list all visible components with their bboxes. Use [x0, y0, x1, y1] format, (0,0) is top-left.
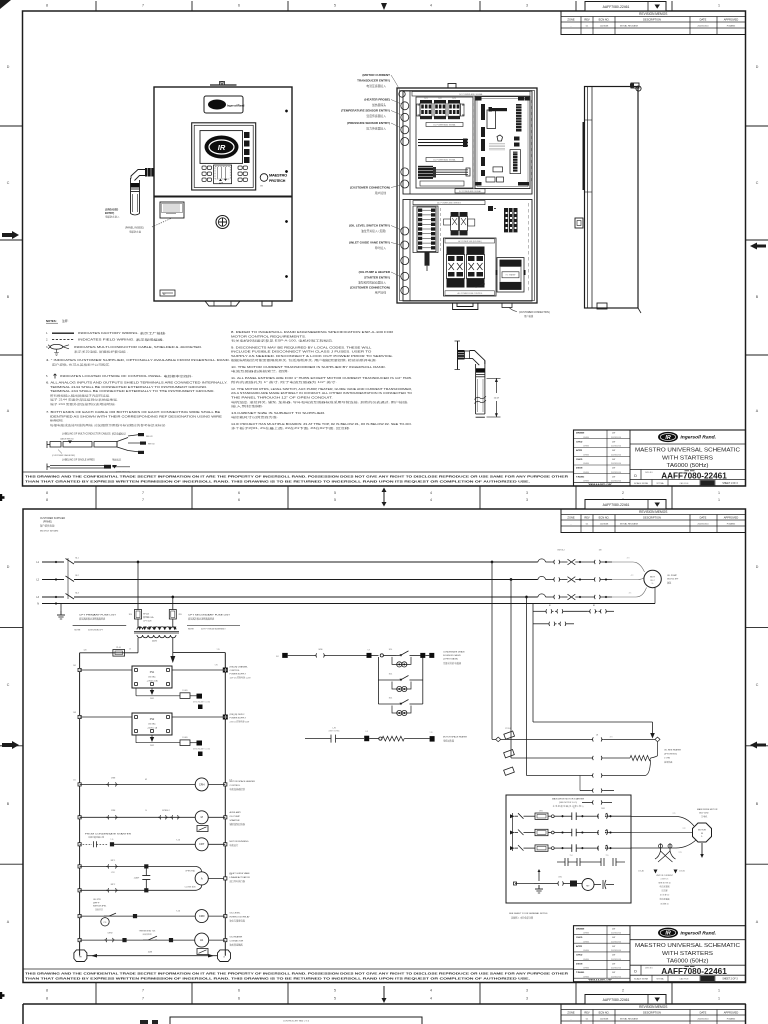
- svg-text:SHEET 2 OF 3: SHEET 2 OF 3: [722, 979, 738, 981]
- svg-text:SCALE NONE: SCALE NONE: [634, 482, 649, 485]
- svg-text:CONDENSATE DRAIN: CONDENSATE DRAIN: [443, 651, 465, 654]
- svg-text:1 OHM: 1 OHM: [664, 758, 670, 760]
- svg-text:6: 6: [238, 997, 240, 1001]
- svg-text:IR: IR: [665, 931, 670, 937]
- svg-text:CHKD: CHKD: [576, 955, 583, 957]
- svg-text:(OIL LEVEL SWITCH ENTRY): (OIL LEVEL SWITCH ENTRY): [349, 224, 390, 228]
- svg-text:THAN THAT GRANTED BY EXPRESS W: THAN THAT GRANTED BY EXPRESS WRITTEN PER…: [25, 480, 530, 484]
- svg-text:DSGN: DSGN: [576, 963, 583, 965]
- svg-text:AC POWER SUB (DIN RAIL): AC POWER SUB (DIN RAIL): [458, 240, 482, 243]
- svg-text:D: D: [756, 565, 759, 569]
- svg-text:2: 2: [622, 491, 624, 495]
- svg-text:INITIAL RELEASE: INITIAL RELEASE: [620, 522, 639, 525]
- svg-text:C8: C8: [596, 735, 598, 737]
- svg-text:1M1: 1M1: [601, 808, 605, 810]
- svg-text:DESCRIPTION: DESCRIPTION: [643, 516, 661, 520]
- svg-text:9. DISCONNECTS MAY BE REQUIRE: 9. DISCONNECTS MAY BE REQUIRED BY LOCAL …: [231, 345, 372, 349]
- svg-text:(2 PER STAGE): (2 PER STAGE): [443, 658, 458, 661]
- svg-text:INDICATES LOCATED OUTSIDE OF C: INDICATES LOCATED OUTSIDE OF CONTROL PAN…: [60, 374, 193, 378]
- svg-text:(CUSTOMER CONNECTION): (CUSTOMER CONNECTION): [350, 286, 390, 290]
- svg-text:CHNG: CHNG: [583, 446, 589, 448]
- svg-text:电控箱尺寸以供货商为准.: 电控箱尺寸以供货商为准.: [231, 415, 279, 419]
- svg-text:电流互感器由英格索兰, 提供.: 电流互感器由英格索兰, 提供.: [231, 369, 289, 373]
- svg-text:(REDUNDANT UL CE): (REDUNDANT UL CE): [193, 748, 211, 751]
- svg-text:10. THE MOTOR CURRENT TRANSFOR: 10. THE MOTOR CURRENT TRANSFORMER IS SUP…: [231, 365, 386, 369]
- svg-text:CONTROLLER 'NN4' 2 5 0: CONTROLLER 'NN4' 2 5 0: [283, 1021, 310, 1023]
- svg-text:INITIAL RELEASE: INITIAL RELEASE: [620, 1017, 639, 1020]
- svg-text:REV: REV: [584, 516, 590, 520]
- svg-text:DC POWER AND SIGNAL: DC POWER AND SIGNAL: [433, 159, 455, 162]
- svg-text:(PRESSURE SENSOR ENTRY): (PRESSURE SENSOR ENTRY): [347, 121, 390, 125]
- svg-text:2023/10/10: 2023/10/10: [698, 25, 710, 27]
- svg-text:4: 4: [430, 997, 432, 1001]
- svg-text:用户提供, 也可从英格索兰公司购买.: 用户提供, 也可从英格索兰公司购买.: [52, 363, 111, 367]
- svg-text:24: 24: [145, 810, 147, 812]
- svg-text:AC POWER AND WIRING: AC POWER AND WIRING: [437, 202, 461, 205]
- svg-text:1: 1: [718, 4, 720, 8]
- svg-text:C: C: [756, 181, 759, 185]
- svg-text:(RS) (N) 24VDC: (RS) (N) 24VDC: [230, 714, 246, 716]
- svg-text:101: 101: [73, 665, 76, 667]
- svg-text:T1: T1: [573, 808, 575, 810]
- svg-text:WT NA: WT NA: [656, 482, 664, 485]
- svg-text:所有模拟输入输出屏蔽端子内部已连接.: 所有模拟输入输出屏蔽端子内部已连接.: [50, 393, 111, 397]
- svg-text:有关电机控制要求参见 ESP-A-100, 电机控制工程规范: 有关电机控制要求参见 ESP-A-100, 电机控制工程规范.: [231, 339, 334, 343]
- svg-text:CHNG: CHNG: [583, 941, 589, 943]
- svg-text:T-W: T-W: [430, 732, 433, 734]
- svg-text:TERMINAL 244 SHALL BE CONNECTE: TERMINAL 244 SHALL BE CONNECTED EXTERNAL…: [50, 389, 215, 393]
- svg-text:C: C: [7, 683, 10, 687]
- svg-text:5: 5: [334, 498, 336, 502]
- svg-text:加热器探头: 加热器探头: [372, 103, 386, 107]
- svg-text:DESCRIPTION: DESCRIPTION: [643, 18, 661, 22]
- svg-text:THIS DRAWING AND THE CONFIDENT: THIS DRAWING AND THE CONFIDENTIAL TRADE …: [25, 971, 568, 975]
- svg-text:MAIN DRIVE MOTOR STARTER: MAIN DRIVE MOTOR STARTER: [552, 798, 585, 801]
- svg-text:2023/10/10: 2023/10/10: [611, 968, 622, 970]
- svg-text:DATE: DATE: [700, 516, 707, 520]
- svg-text:24V2: 24V2: [150, 745, 154, 747]
- svg-text:AUXILIARY: AUXILIARY: [230, 811, 242, 814]
- svg-text:CONTACTOR: CONTACTOR: [230, 940, 244, 943]
- svg-text:120: 120: [84, 650, 87, 652]
- svg-text:INTERLOCK RELAY: INTERLOCK RELAY: [230, 916, 251, 919]
- svg-text:CPT 50/8: CPT 50/8: [143, 621, 152, 623]
- svg-text:MAIN DRIVE MOTOR: MAIN DRIVE MOTOR: [697, 808, 718, 811]
- svg-text:(TEMPERATURE SENSOR ENTRY): (TEMPERATURE SENSOR ENTRY): [341, 109, 390, 113]
- svg-text:WITH STARTERS: WITH STARTERS: [662, 951, 713, 957]
- svg-text:MOTOR SPACE HEATER: MOTOR SPACE HEATER: [443, 736, 468, 739]
- svg-text:3: 3: [526, 997, 528, 1001]
- svg-text:OIL RES HEATER: OIL RES HEATER: [664, 749, 681, 752]
- svg-text:CAD FILE: CAD FILE: [679, 482, 689, 485]
- svg-text:4-BN: 4-BN: [148, 952, 153, 954]
- svg-text:8: 8: [46, 498, 48, 502]
- svg-text:2.: 2.: [46, 338, 48, 342]
- svg-text:CAD FILE: CAD FILE: [679, 978, 689, 981]
- svg-text:1K1: 1K1: [424, 98, 427, 100]
- svg-text:AAFF7080-22461: AAFF7080-22461: [603, 503, 630, 507]
- svg-text:H1: H1: [200, 938, 204, 942]
- svg-text:D: D: [756, 65, 759, 69]
- svg-text:INITIAL RELEASE: INITIAL RELEASE: [620, 24, 639, 27]
- svg-text:2023/10/10: 2023/10/10: [698, 1018, 710, 1020]
- svg-text:1: 1: [718, 498, 720, 502]
- svg-text:NOTES:: NOTES:: [46, 319, 57, 323]
- svg-text:380V/50 3HP: 380V/50 3HP: [667, 579, 679, 581]
- svg-text:7: 7: [142, 4, 144, 8]
- svg-text:INLET GUIDE VANE: INLET GUIDE VANE: [230, 872, 251, 875]
- svg-text:CMU: CMU: [558, 877, 563, 879]
- svg-text:24V1: 24V1: [150, 698, 154, 700]
- svg-text:T-16: T-16: [176, 911, 180, 913]
- svg-text:4T1: 4T1: [629, 593, 632, 595]
- svg-text:温度传感器接入: 温度传感器接入: [366, 114, 386, 118]
- svg-text:▲▼: ▲▼: [219, 181, 223, 184]
- svg-text:DC POWER AND SIGNAL: DC POWER AND SIGNAL: [459, 190, 481, 193]
- svg-text:ALL POWER FUSE CONTROL: ALL POWER FUSE CONTROL: [458, 292, 483, 295]
- svg-text:REVISION MEMOS: REVISION MEMOS: [639, 1005, 667, 1009]
- svg-text:OIL C: OIL C: [650, 580, 656, 582]
- svg-text:OIL PUMP: OIL PUMP: [230, 816, 241, 818]
- svg-text:CRD: CRD: [199, 914, 205, 918]
- svg-text:DESCRIPTION: DESCRIPTION: [643, 1011, 661, 1015]
- svg-text:DSGN: DSGN: [576, 468, 583, 470]
- svg-text:T.RANG: T.RANG: [576, 971, 584, 974]
- svg-text:50/YYY RELAY ASSEMBLY: 50/YYY RELAY ASSEMBLY: [201, 627, 226, 630]
- svg-text:+24VDC 10A: +24VDC 10A: [146, 679, 158, 682]
- svg-text:L-W: L-W: [332, 728, 336, 730]
- svg-text:(WIRE REF-XX): (WIRE REF-XX): [116, 472, 130, 474]
- svg-text:APPR: APPR: [576, 945, 582, 948]
- svg-text:240V: 240V: [152, 640, 158, 642]
- svg-text:8: 8: [46, 491, 48, 495]
- svg-text:2023/10/10: 2023/10/10: [698, 523, 710, 525]
- svg-text:多个板子时#1, #1在最上面, #2在#1下面, #3在#: 多个板子时#1, #1在最上面, #2在#1下面, #3在#2下面, 见注释.: [231, 426, 351, 430]
- svg-text:(RS) (N) CHANNEL: (RS) (N) CHANNEL: [230, 666, 249, 669]
- svg-text:ZONE: ZONE: [567, 1011, 574, 1015]
- svg-text:油泵和风机起动器接入: 油泵和风机起动器接入: [358, 281, 386, 285]
- svg-text:DWG NO.: DWG NO.: [645, 472, 654, 474]
- svg-text:每根电缆或连接导线的两端, 应如图所示用线号标记相应的参考标: 每根电缆或连接导线的两端, 应如图所示用线号标记相应的参考标识来标记.: [50, 423, 166, 427]
- svg-text:1M: 1M: [599, 550, 602, 552]
- svg-text:FROM CONDENSATE STARTER: FROM CONDENSATE STARTER: [85, 833, 132, 836]
- svg-text:DWG NO.: DWG NO.: [645, 968, 654, 970]
- svg-text:MOTOR SPACE HEATER: MOTOR SPACE HEATER: [230, 780, 256, 783]
- svg-text:(SEE NOTES 3 & 5): (SEE NOTES 3 & 5): [559, 802, 577, 804]
- svg-text:T-16: T-16: [176, 840, 180, 842]
- svg-text:REF-XX: REF-XX: [148, 444, 155, 446]
- svg-text:ECN NO.: ECN NO.: [599, 1011, 610, 1015]
- svg-text:14.IF PROJECT HAS MULTIPLE BOA: 14.IF PROJECT HAS MULTIPLE BOARDS: #1 AT…: [231, 422, 412, 426]
- svg-text:根据当地规范可能需要隔离开关, 包括熔断开关, 用户根据需要: 根据当地规范可能需要隔离开关, 包括熔断开关, 用户根据需要提供, 检修前断开电…: [231, 358, 377, 362]
- svg-text:CONTROL: CONTROL: [230, 670, 241, 672]
- svg-text:(CUSTOMER CONNECTION): (CUSTOMER CONNECTION): [350, 186, 390, 190]
- svg-text:APPROVED: APPROVED: [724, 1011, 739, 1015]
- svg-text:POWER SUPPLY: POWER SUPPLY: [230, 674, 247, 676]
- svg-text:IR: IR: [665, 435, 670, 441]
- svg-text:用户接线: 用户接线: [375, 191, 386, 195]
- svg-text:(4PW WIRING): (4PW WIRING): [664, 754, 677, 756]
- svg-text:T-W: T-W: [216, 649, 219, 651]
- svg-text:8: 8: [46, 4, 48, 8]
- svg-text:6: 6: [238, 498, 240, 502]
- svg-text:DRAWN: DRAWN: [576, 432, 585, 435]
- svg-text:(MOTOR CURRENT: (MOTOR CURRENT: [362, 73, 390, 77]
- svg-text:电缆防水进入: 电缆防水进入: [105, 215, 120, 219]
- svg-text:3: 3: [526, 989, 528, 993]
- svg-text:INDICATES FIELD WIRING. 表示现场: INDICATES FIELD WIRING. 表示现场接线.: [78, 338, 164, 342]
- svg-text:CABLE REF-XX: CABLE REF-XX: [60, 438, 74, 441]
- svg-text:4: 4: [430, 498, 432, 502]
- svg-text:(CUSTOMER CONNECTION): (CUSTOMER CONNECTION): [519, 312, 550, 314]
- svg-text:MOTOR: MOTOR: [698, 830, 706, 832]
- svg-text:P-LED: P-LED: [182, 690, 188, 692]
- svg-text:REV: REV: [584, 1011, 590, 1015]
- svg-text:CRH: CRH: [199, 782, 205, 786]
- svg-text:所有的进线孔为 1" 英寸, 除了电流互感器为 1/2" 英: 所有的进线孔为 1" 英寸, 除了电流互感器为 1/2" 英寸.: [231, 380, 337, 384]
- svg-text:1TOL8: 1TOL8: [505, 728, 510, 730]
- svg-text:IngersollRand: IngersollRand: [227, 104, 245, 108]
- svg-text:7. BOTH ENDS OF EACH CABLE OR: 7. BOTH ENDS OF EACH CABLE OR BOTH ENDS …: [46, 410, 221, 414]
- svg-text:CHNG: CHNG: [583, 454, 589, 456]
- svg-text:T14: T14: [570, 855, 573, 857]
- svg-text:D: D: [7, 565, 10, 569]
- svg-text:ENTRY): ENTRY): [105, 212, 114, 215]
- svg-text:UNITOR CURRENT: UNITOR CURRENT: [656, 875, 674, 877]
- svg-text:8. REFER TO INGERSOLL RAND EN: 8. REFER TO INGERSOLL RAND ENGINEERING S…: [231, 330, 393, 334]
- svg-text:ECN NO.: ECN NO.: [599, 18, 610, 22]
- svg-text:导叶接入: 导叶接入: [375, 246, 386, 250]
- svg-text:1023658: 1023658: [600, 25, 609, 27]
- svg-text:AAFF7080-22461: AAFF7080-22461: [661, 471, 727, 480]
- svg-text:11. ALL PANEL ENTRIES ARE FOR: 11. ALL PANEL ENTRIES ARE FOR 1" HUBS EX…: [231, 376, 412, 380]
- svg-text:WT NA: WT NA: [656, 978, 664, 981]
- svg-text:12. THE MOTOR RTDS, LEVEL SWIT: 12. THE MOTOR RTDS, LEVEL SWITCH, AUX PU…: [231, 387, 412, 391]
- svg-text:STARTER: STARTER: [230, 819, 240, 822]
- svg-text:CUSTOMER SUPPLIED: CUSTOMER SUPPLIED: [40, 518, 65, 520]
- svg-text:1: 1: [718, 491, 720, 495]
- svg-text:CPT SECONDARY FUSE LIST: CPT SECONDARY FUSE LIST: [188, 614, 231, 617]
- svg-text:油位开关接入 (见图): 油位开关接入 (见图): [361, 229, 386, 233]
- svg-text:42: 42: [145, 779, 147, 781]
- svg-text:MOTOR CONTROL REQUIREMENTS.: MOTOR CONTROL REQUIREMENTS.: [231, 334, 307, 338]
- svg-text:APPROVED: APPROVED: [724, 18, 739, 22]
- svg-text:1023658: 1023658: [600, 1018, 609, 1020]
- svg-text:XF1-B: XF1-B: [143, 614, 150, 616]
- svg-text:PS1: PS1: [150, 671, 155, 674]
- svg-text:801: 801: [276, 656, 279, 658]
- svg-text:电缆防水盒: 电缆防水盒: [129, 229, 142, 233]
- svg-text:DATE: DATE: [700, 18, 707, 22]
- svg-text:(INLET GUIDE VANE ENTRY): (INLET GUIDE VANE ENTRY): [349, 241, 390, 245]
- svg-text:W06: W06: [319, 649, 323, 651]
- svg-text:CHNG: CHNG: [583, 959, 589, 961]
- svg-text:2: 2: [622, 989, 624, 993]
- svg-text:2023/10/10: 2023/10/10: [611, 463, 622, 465]
- svg-text:TERMINAL 2144 SHALL BE CONNECT: TERMINAL 2144 SHALL BE CONNECTED EXTERNA…: [50, 385, 208, 389]
- svg-text:MOTOR RUNNING: MOTOR RUNNING: [230, 841, 249, 843]
- svg-text:INCLUDE FUSIBLE DISCONNECT WIT: INCLUDE FUSIBLE DISCONNECT WITH CLASS J …: [231, 350, 371, 354]
- svg-text:1CT-A1: 1CT-A1: [638, 870, 644, 873]
- svg-text:(CUSTOMER CABLE REF): (CUSTOMER CABLE REF): [52, 454, 75, 457]
- svg-text:ZONE: ZONE: [567, 516, 574, 520]
- svg-text:APPR: APPR: [576, 449, 582, 452]
- svg-text:5: 5: [334, 4, 336, 8]
- svg-text:SOL: SOL: [389, 674, 393, 676]
- svg-text:CHNG: CHNG: [583, 437, 589, 439]
- svg-text:3: 3: [526, 4, 528, 8]
- svg-text:4PS1: 4PS1: [111, 872, 115, 874]
- svg-text:7-1L: 7-1L: [110, 839, 113, 841]
- svg-text:4T2: 4T2: [631, 575, 634, 577]
- svg-text:3: 3: [526, 498, 528, 502]
- svg-text:SWITCH 4PS1: SWITCH 4PS1: [93, 906, 107, 908]
- svg-text:D: D: [634, 474, 637, 478]
- svg-text:(REDUNDANT UL CE): (REDUNDANT UL CE): [193, 701, 211, 704]
- svg-text:4: 4: [430, 989, 432, 993]
- svg-text:REVISION MEMOS: REVISION MEMOS: [639, 510, 667, 514]
- svg-text:1K2: 1K2: [438, 98, 441, 100]
- svg-text:5: 5: [334, 491, 336, 495]
- svg-text:SOL: SOL: [389, 649, 393, 651]
- svg-text:MARKERS.: MARKERS.: [50, 419, 64, 423]
- svg-text:480 VAC: 480 VAC: [148, 676, 156, 679]
- svg-text:7: 7: [142, 498, 144, 502]
- svg-text:SCALE NONE: SCALE NONE: [634, 978, 649, 981]
- svg-text:AAFF7080-22461: AAFF7080-22461: [603, 998, 630, 1002]
- svg-text:4T3: 4T3: [627, 558, 630, 560]
- svg-text:电流互感器接入: 电流互感器接入: [366, 84, 386, 88]
- svg-text:2023/10/10: 2023/10/10: [611, 933, 622, 935]
- svg-text:1CT-B1: 1CT-B1: [679, 871, 685, 873]
- svg-text:CRT: CRT: [199, 842, 205, 846]
- svg-text:接入到控制柜.: 接入到控制柜.: [231, 404, 264, 408]
- svg-text:THIS DRAWING AND THE CONFIDENT: THIS DRAWING AND THE CONFIDENTIAL TRADE …: [25, 474, 568, 478]
- svg-text:103: 103: [73, 712, 76, 714]
- svg-text:DRAWN: DRAWN: [576, 927, 585, 930]
- svg-text:m: m: [261, 185, 263, 188]
- svg-text:SEE SHEET 1 FOR GENERAL NOTES: SEE SHEET 1 FOR GENERAL NOTES: [509, 912, 548, 915]
- svg-text:REV: REV: [584, 18, 590, 22]
- svg-text:LABELING OF SINGLE WIRES: LABELING OF SINGLE WIRES: [62, 459, 95, 462]
- svg-text:REVISION MEMOS: REVISION MEMOS: [639, 12, 667, 16]
- svg-text:M: M: [701, 833, 703, 835]
- svg-text:*MANILA A.DETL.CHN*: *MANILA A.DETL.CHN*: [588, 979, 612, 982]
- svg-text:T15: T15: [606, 855, 609, 857]
- svg-text:4T3: 4T3: [610, 737, 613, 739]
- svg-text:C: C: [7, 181, 10, 185]
- svg-text:PL-B: PL-B: [116, 647, 121, 649]
- svg-text:表示多芯电缆, 屏蔽和护套电缆 .: 表示多芯电缆, 屏蔽和护套电缆 .: [74, 350, 128, 354]
- svg-text:4. " INDICATES CUSTOMER SUPPL: 4. " INDICATES CUSTOMER SUPPLIED, OPTION…: [46, 358, 230, 362]
- svg-text:OIL LEVEL: OIL LEVEL: [230, 913, 242, 915]
- svg-text:CHKD: CHKD: [576, 441, 583, 443]
- svg-text:INDICATES MULTI-CONDUCTOR CABL: INDICATES MULTI-CONDUCTOR CABLE, SHIELDE…: [74, 345, 203, 349]
- svg-text:1: 1: [718, 989, 720, 993]
- svg-text:D: D: [634, 970, 637, 974]
- svg-text:B1: B1: [549, 605, 551, 607]
- svg-text:CHNG: CHNG: [583, 968, 589, 970]
- svg-text:STARTER ENTRY): STARTER ENTRY): [364, 276, 390, 280]
- svg-text:2023/10/10: 2023/10/10: [611, 454, 622, 456]
- svg-text:IR: IR: [163, 293, 166, 296]
- svg-text:13.CABINET SIZE IS SUBJECT TO: 13.CABINET SIZE IS SUBJECT TO SUPPLIER.: [231, 411, 326, 415]
- svg-text:SOL: SOL: [389, 698, 393, 700]
- svg-text:DC POWER AND SIGNAL: DC POWER AND SIGNAL: [433, 124, 455, 127]
- svg-text:THERMOSTAT 74S: THERMOSTAT 74S: [139, 930, 156, 933]
- svg-text:APPROVED: APPROVED: [724, 516, 739, 520]
- svg-text:PROTECH: PROTECH: [269, 179, 286, 183]
- svg-text:SEE NOTE 10: SEE NOTE 10: [658, 883, 670, 885]
- svg-text:CHNG: CHNG: [583, 933, 589, 935]
- svg-text:380 VOLT 3Ø 50HZ: 380 VOLT 3Ø 50HZ: [40, 531, 59, 533]
- svg-text:2023/10/10: 2023/10/10: [611, 941, 622, 943]
- svg-text:7: 7: [142, 989, 144, 993]
- svg-text:2023/10/10: 2023/10/10: [611, 959, 622, 961]
- svg-text:4: 4: [430, 491, 432, 495]
- svg-text:6: 6: [238, 491, 240, 495]
- svg-text:OIL PUMP: OIL PUMP: [667, 575, 677, 577]
- svg-text:AS A STANDARD ARE MADE ENTIREL: AS A STANDARD ARE MADE ENTIRELY IN CONDU…: [231, 391, 412, 395]
- svg-text:压力传感器接入: 压力传感器接入: [366, 127, 386, 131]
- svg-text:7: 7: [142, 997, 144, 1001]
- svg-text:注释:: 注释:: [62, 319, 69, 323]
- svg-text:CPT PRIMARY FUSE LIST: CPT PRIMARY FUSE LIST: [79, 614, 117, 617]
- svg-text:*MANILA A.DETL.CHN*: *MANILA A.DETL.CHN*: [588, 483, 612, 486]
- svg-text:TA6000 (50Hz): TA6000 (50Hz): [667, 463, 709, 469]
- svg-text:F.WANG: F.WANG: [727, 522, 736, 525]
- svg-text:M: M: [201, 815, 203, 819]
- svg-text:1: 1: [718, 997, 720, 1001]
- svg-text:T-W: T-W: [367, 650, 370, 652]
- svg-text:F.WANG: F.WANG: [727, 1017, 736, 1020]
- svg-text:5.: 5.: [46, 374, 48, 378]
- svg-text:50/XXXKVA CPT: 50/XXXKVA CPT: [88, 629, 104, 632]
- svg-text:CHNG: CHNG: [583, 463, 589, 465]
- svg-text:用户接线: 用户接线: [375, 291, 386, 295]
- svg-text:2023/10/10: 2023/10/10: [611, 446, 622, 448]
- svg-text:P-LED: P-LED: [182, 737, 188, 739]
- svg-text:PS2: PS2: [150, 718, 155, 721]
- svg-text:CHKD: CHKD: [576, 937, 583, 939]
- svg-text:CHKD: CHKD: [576, 459, 583, 461]
- svg-text:(HEATER PROBE): (HEATER PROBE): [364, 98, 390, 102]
- svg-text:THAN THAT GRANTED BY EXPRESS W: THAN THAT GRANTED BY EXPRESS WRITTEN PER…: [25, 977, 530, 981]
- svg-text:TRANSDUCER ENTRY): TRANSDUCER ENTRY): [357, 79, 390, 83]
- svg-text:NOTE:: NOTE:: [75, 630, 82, 632]
- svg-text:CRM: CRM: [111, 778, 116, 780]
- svg-text:Ingersoll Rand.: Ingersoll Rand.: [680, 930, 716, 936]
- svg-text:MOT: MOT: [650, 577, 656, 579]
- svg-text:2023/10/10: 2023/10/10: [611, 472, 622, 474]
- svg-text:1T2: 1T2: [683, 828, 686, 830]
- svg-text:OIL FTR: OIL FTR: [93, 899, 101, 901]
- svg-text:4: 4: [430, 4, 432, 8]
- svg-text:1-W: 1-W: [365, 731, 368, 733]
- svg-text:+24VDC 5A: +24VDC 5A: [147, 726, 158, 729]
- svg-text:DATE: DATE: [700, 1011, 707, 1015]
- svg-text:NOTE:: NOTE:: [188, 628, 195, 630]
- svg-text:AAFF7080-22461: AAFF7080-22461: [661, 967, 727, 976]
- svg-text:(OIL PUMP & HEATER: (OIL PUMP & HEATER: [359, 270, 391, 274]
- svg-text:T-W: T-W: [214, 665, 217, 667]
- svg-text:4-AMP: 4-AMP: [134, 877, 140, 880]
- svg-text:2023/10/10: 2023/10/10: [611, 437, 622, 439]
- svg-text:AAFF7080-22461: AAFF7080-22461: [603, 5, 630, 9]
- svg-text:CHNG: CHNG: [583, 472, 589, 474]
- svg-text:G: G: [223, 957, 225, 959]
- svg-text:端子 2144 需要外部连接到仪表地接地端.: 端子 2144 需要外部连接到仪表地接地端.: [50, 398, 118, 402]
